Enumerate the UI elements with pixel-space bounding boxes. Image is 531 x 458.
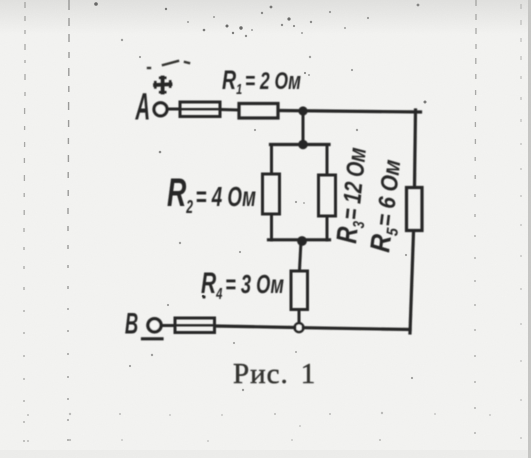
- dot under R4 label: [202, 295, 205, 298]
- resistor R5: [407, 188, 423, 231]
- wire parallel block to R4: [300, 241, 302, 270]
- right branch wire (top corner down to bottom corner): [415, 110, 416, 186]
- wire R4 to bottom node: [298, 312, 301, 324]
- wire node down to parallel block: [302, 111, 305, 144]
- svg-text:В: В: [125, 308, 138, 340]
- faint bottom dotted rows: [27, 412, 491, 442]
- ruled dashed column line left 1: [24, 2, 25, 442]
- bottom wire fuse to right corner: [216, 326, 410, 330]
- terminal A circle: [154, 103, 167, 116]
- node junction top: [298, 106, 307, 115]
- parallel block bottom bar wire: [269, 238, 330, 241]
- fuse F1: [180, 102, 220, 117]
- ruled dashed column line right 1: [475, 0, 476, 434]
- wire R1 to top-right corner: [280, 111, 421, 113]
- resistor R2: [263, 174, 280, 214]
- terminal B circle: [148, 319, 161, 332]
- resistor R1: [239, 104, 278, 119]
- right branch wire to R3: [326, 145, 329, 175]
- noise streak above plus: [148, 61, 189, 68]
- scan speckle noise: [94, 2, 426, 391]
- resistor R4: [291, 271, 308, 310]
- minus underline below B terminal: [143, 337, 163, 340]
- paper mottle texture: [0, 0, 1, 1]
- wire A to fuse: [169, 108, 180, 111]
- svg-text:Рис.1: Рис.1: [233, 358, 316, 390]
- fuse F2: [175, 318, 215, 333]
- open node on bottom wire: [295, 323, 304, 332]
- ruled dashed column line right 2: [520, 4, 522, 439]
- ruled dashed column line left 2: [68, 0, 69, 441]
- right branch wire below R5: [410, 232, 414, 333]
- svg-text:R1= 2 Ом: R1= 2 Ом: [222, 65, 301, 98]
- wire B to fuse: [161, 324, 174, 327]
- parallel block top bar wire: [271, 143, 330, 146]
- wire fuse to R1: [222, 108, 238, 112]
- plus sign polarity mark: [155, 78, 171, 93]
- svg-text:A: A: [135, 87, 150, 128]
- left branch wire to R2: [270, 145, 273, 174]
- node parallel top: [298, 140, 308, 150]
- right branch wire R3 to bottom bar: [326, 218, 329, 241]
- resistor R3: [319, 175, 336, 216]
- node parallel bottom: [297, 236, 307, 246]
- svg-text:R4= 3 Ом: R4= 3 Ом: [201, 267, 284, 303]
- left branch wire R2 to bottom bar: [270, 216, 273, 241]
